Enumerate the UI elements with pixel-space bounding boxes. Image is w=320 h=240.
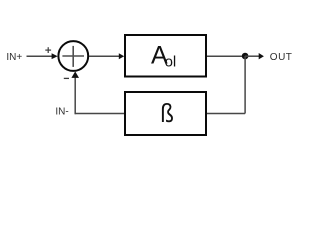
- output node junction dot: [242, 53, 249, 60]
- feedback wire vertical from output node: [244, 56, 246, 114]
- arrowhead to OUT: [259, 53, 264, 59]
- wire IN+ to summing junction: [27, 55, 54, 57]
- wire Aol box to output node: [207, 55, 245, 57]
- feedback wire horizontal into beta box: [207, 113, 245, 115]
- summing junction circle: [58, 41, 88, 71]
- feedback block beta box: [125, 92, 206, 135]
- cross inside summing junction: [62, 46, 84, 67]
- arrowhead into summing junction (from IN+): [52, 53, 58, 59]
- svg-text:IN+: IN+: [6, 52, 22, 63]
- minus sign at summing input: [64, 77, 69, 79]
- arrowhead into summing junction (feedback): [71, 71, 79, 78]
- wire node to OUT arrow: [245, 55, 260, 57]
- wire beta box to IN- node: [75, 113, 124, 115]
- plus sign at summing input: [45, 47, 51, 53]
- svg-text:ol: ol: [165, 54, 177, 71]
- svg-text:OUT: OUT: [270, 52, 293, 63]
- arrowhead into Aol box: [119, 53, 124, 59]
- svg-text:ß: ß: [160, 100, 173, 129]
- amplifier block Aol box: [125, 35, 206, 77]
- svg-text:IN-: IN-: [55, 107, 68, 118]
- wire summing junction to Aol box: [89, 55, 119, 57]
- wire IN- node up to summing junction: [74, 78, 76, 115]
